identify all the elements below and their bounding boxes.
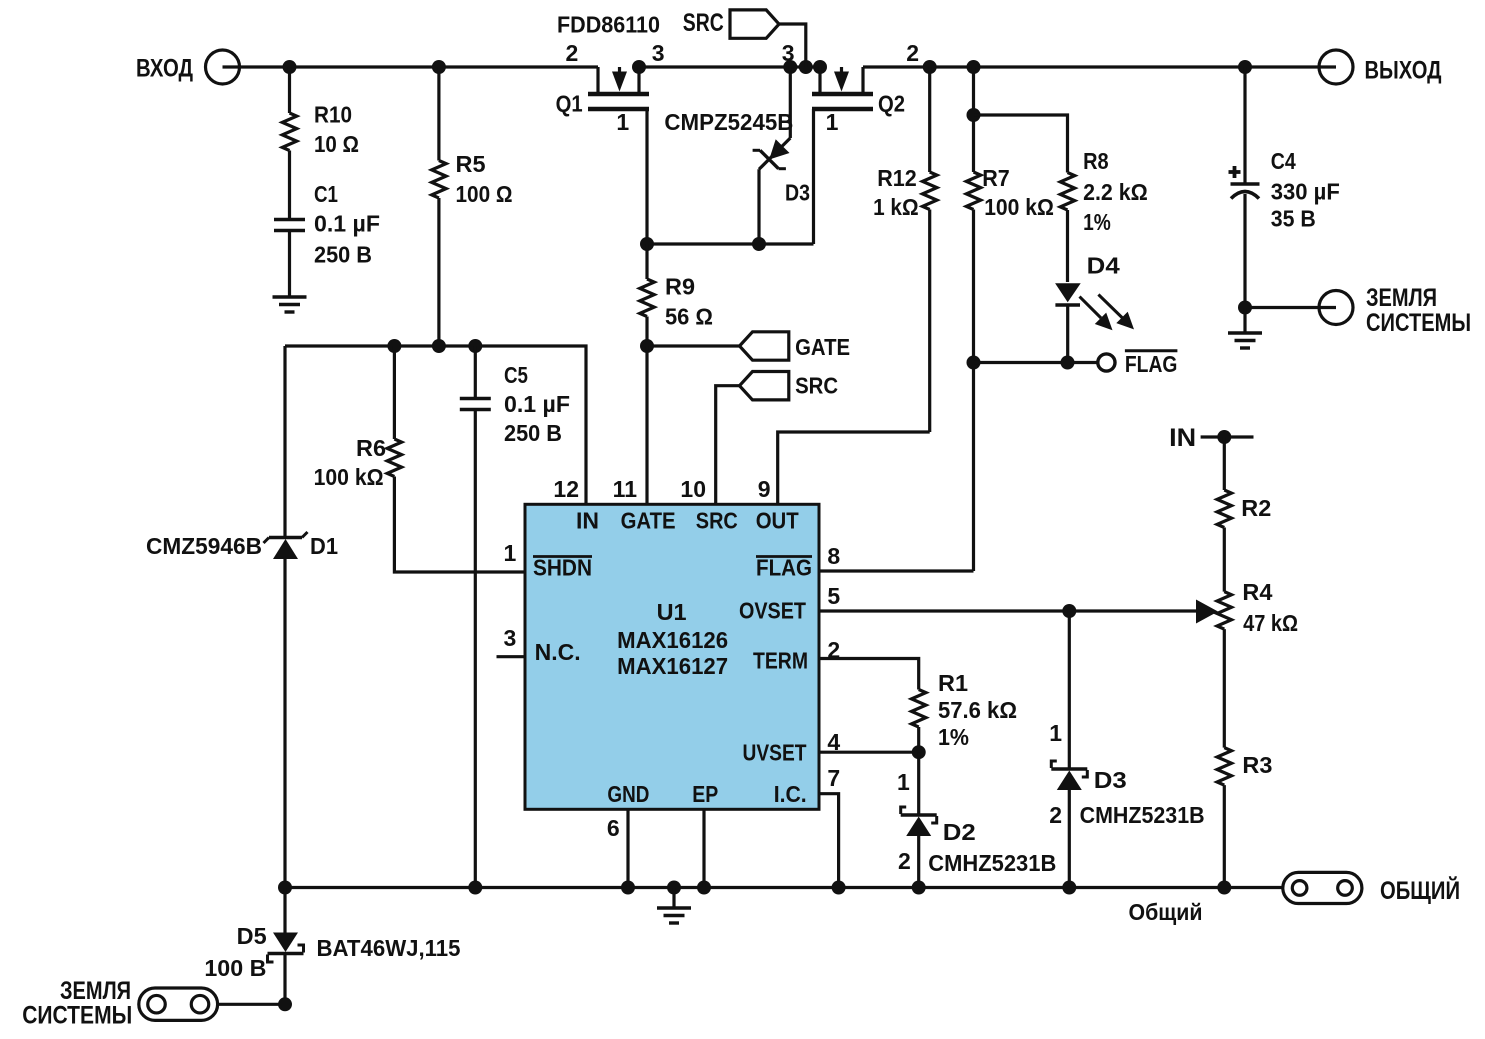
wire U1 pin 9 OUT to R12	[778, 432, 930, 504]
svg-text:57.6 kΩ: 57.6 kΩ	[938, 697, 1017, 723]
terminal ВХОД (input)	[136, 50, 240, 84]
junction chip ground symbol	[667, 881, 681, 895]
junction R3 bottom	[1217, 881, 1231, 895]
svg-text:ОБЩИЙ: ОБЩИЙ	[1380, 875, 1460, 905]
junction GATE node	[640, 339, 654, 353]
terminal ЗЕМЛЯ СИСТЕМЫ (system ground, right)	[1319, 284, 1471, 337]
junction FLAG output node	[967, 356, 981, 370]
junction Q1 source node	[632, 60, 646, 74]
svg-text:10: 10	[680, 476, 706, 502]
flag SRC (top, to Q1/Q2 source node)	[683, 9, 779, 38]
resistor R8 2.2 kΩ 1%	[974, 115, 1148, 282]
svg-text:SRC: SRC	[696, 508, 738, 534]
transistor Q2 FDD86110 (N-MOSFET)	[812, 67, 905, 117]
wire GATE flag to R9/pin11 node	[647, 344, 740, 347]
junction R10 tap	[283, 60, 297, 74]
svg-text:C4: C4	[1271, 148, 1296, 174]
svg-text:GATE: GATE	[621, 508, 676, 534]
capacitor C1 0.1 µF 250 В	[274, 151, 380, 268]
svg-text:Общий: Общий	[1129, 899, 1203, 925]
resistor R10 10 Ω	[282, 67, 359, 157]
svg-text:R10: R10	[314, 102, 352, 128]
svg-text:2: 2	[906, 40, 919, 66]
svg-text:0.1 µF: 0.1 µF	[314, 211, 380, 237]
svg-text:UVSET: UVSET	[743, 740, 807, 766]
svg-text:GATE: GATE	[795, 334, 850, 360]
svg-text:SRC: SRC	[795, 373, 838, 399]
svg-text:R9: R9	[665, 274, 695, 300]
wire U1 pin 11 GATE lead	[645, 346, 648, 504]
svg-text:10 Ω: 10 Ω	[314, 131, 359, 157]
wire U1 pin 3 N.C. stub	[497, 655, 526, 658]
junction R5 tap	[432, 60, 446, 74]
zener diode D3 CMHZ5231B	[1051, 611, 1204, 888]
svg-text:FLAG: FLAG	[756, 555, 812, 581]
svg-text:CMPZ5245B: CMPZ5245B	[664, 109, 793, 135]
svg-text:330 µF: 330 µF	[1271, 179, 1340, 205]
svg-text:1%: 1%	[1083, 209, 1111, 235]
op-amp U1 MAX16126/MAX16127 (controller IC)	[525, 504, 819, 809]
LED D4	[1055, 253, 1134, 363]
svg-text:TERM: TERM	[753, 648, 808, 674]
wire SRC flag to source node	[779, 24, 806, 67]
junction EP pin	[697, 881, 711, 895]
junction I.C. pin	[832, 881, 846, 895]
svg-text:R5: R5	[456, 151, 486, 177]
svg-text:2: 2	[898, 848, 911, 874]
svg-text:11: 11	[613, 476, 638, 502]
potentiometer wiper arrow (R4)	[1196, 600, 1218, 624]
svg-text:MAX16126: MAX16126	[617, 627, 728, 653]
resistor R5 100 Ω	[432, 67, 513, 346]
svg-text:C1: C1	[314, 181, 338, 207]
svg-text:2.2 kΩ: 2.2 kΩ	[1083, 179, 1148, 205]
svg-text:OUT: OUT	[756, 508, 799, 534]
svg-text:IN: IN	[1169, 424, 1196, 452]
wire IN rail (D1 branch to U1 pin 12)	[285, 346, 586, 504]
svg-text:6: 6	[607, 815, 620, 841]
svg-text:N.C.: N.C.	[535, 639, 581, 665]
wire U1 pin 4 UVSET to R1/D2 node	[819, 751, 919, 754]
wire input rail (ВХОД to Q1 drain)	[223, 65, 599, 68]
terminal ВЫХОД (output)	[1319, 50, 1442, 85]
flag SRC (middle)	[740, 372, 839, 400]
junction R12 tap	[923, 60, 937, 74]
svg-text:SRC: SRC	[683, 9, 724, 37]
junction R9 top	[640, 237, 654, 251]
junction Q2 source node	[813, 60, 827, 74]
wire U1 pin 8 FLAG to R7	[819, 569, 974, 572]
svg-text:CMHZ5231B: CMHZ5231B	[928, 850, 1056, 876]
junction R6 tap	[387, 339, 401, 353]
svg-text:CMZ5946B: CMZ5946B	[146, 533, 262, 559]
svg-text:R1: R1	[938, 670, 968, 696]
schottky diode D5 BAT46WJ,115 100 В	[204, 888, 460, 1005]
capacitor C4 330 µF 35 В (polarized)	[1229, 67, 1340, 308]
junction D3 (CMHZ5231B) tap	[1062, 604, 1076, 618]
svg-text:SHDN: SHDN	[533, 555, 592, 581]
svg-text:D3: D3	[785, 180, 810, 206]
svg-text:47 kΩ: 47 kΩ	[1243, 610, 1298, 636]
svg-text:100 kΩ: 100 kΩ	[984, 194, 1054, 220]
wire U1 pin 7 I.C. to ground rail	[819, 794, 839, 888]
junction R8 branch	[967, 108, 981, 122]
resistor R3	[1217, 748, 1272, 888]
svg-text:MAX16127: MAX16127	[617, 653, 728, 679]
svg-text:Q1: Q1	[556, 91, 583, 117]
svg-text:R4: R4	[1242, 579, 1272, 605]
svg-text:U1: U1	[657, 599, 687, 625]
wire U1 pin 2 TERM to R1	[819, 659, 919, 690]
svg-text:R6: R6	[356, 435, 386, 461]
svg-text:I.C.: I.C.	[774, 781, 807, 807]
wire ground rail (Общий)	[285, 888, 1283, 926]
wire D5 to system ground terminal	[218, 1003, 285, 1006]
svg-text:D4: D4	[1087, 253, 1120, 279]
zener diode D3 CMPZ5245B (gate-source clamp)	[664, 67, 810, 244]
flag GATE	[740, 332, 851, 360]
wire U1 EP lead	[702, 809, 705, 888]
svg-text:100 Ω: 100 Ω	[456, 181, 513, 207]
junction D3 anode	[752, 237, 766, 251]
zener diode D2 CMHZ5231B	[901, 752, 1057, 887]
svg-text:250 В: 250 В	[314, 241, 372, 267]
ground (U1 EP/GND)	[657, 888, 691, 924]
svg-text:2: 2	[1049, 802, 1062, 828]
svg-text:2: 2	[566, 40, 579, 66]
ground (C4)	[1228, 308, 1262, 349]
svg-text:56 Ω: 56 Ω	[665, 304, 713, 330]
svg-text:R12: R12	[877, 165, 917, 191]
svg-text:1: 1	[1049, 720, 1062, 746]
svg-text:12: 12	[553, 476, 579, 502]
junction R7 tap	[967, 60, 981, 74]
junction D2 anode rail	[912, 881, 926, 895]
svg-text:D5: D5	[237, 923, 267, 949]
svg-text:7: 7	[827, 765, 840, 791]
junction C4 ground node	[1238, 301, 1252, 315]
svg-text:ВЫХОД: ВЫХОД	[1365, 57, 1442, 85]
svg-text:1 kΩ: 1 kΩ	[873, 194, 919, 220]
svg-text:ЗЕМЛЯ: ЗЕМЛЯ	[1366, 284, 1437, 312]
node IN (divider input)	[1169, 424, 1253, 452]
svg-text:CMHZ5231B: CMHZ5231B	[1080, 802, 1205, 828]
junction D3 cathode tap	[783, 60, 797, 74]
junction D3 anode rail	[1062, 881, 1076, 895]
svg-text:EP: EP	[692, 781, 718, 807]
wire FLAG node to FLAG terminal	[974, 361, 1098, 364]
terminal FLAG (open circle)	[1098, 351, 1178, 377]
resistor R6 100 kΩ	[314, 346, 525, 572]
wire U1 pin 6 GND lead	[626, 809, 629, 888]
resistor R1 57.6 kΩ 1%	[912, 670, 1018, 752]
svg-text:1: 1	[616, 109, 629, 135]
svg-text:R7: R7	[982, 165, 1010, 191]
svg-text:35 В: 35 В	[1271, 206, 1316, 232]
wire C4 to system ground terminal	[1245, 306, 1336, 309]
svg-text:250 В: 250 В	[504, 420, 562, 446]
wire Q2 gate lead	[812, 109, 815, 244]
resistor R2	[1217, 437, 1271, 592]
svg-text:1: 1	[826, 109, 839, 135]
wire SRC flag to U1 pin 10	[716, 386, 740, 504]
svg-text:СИСТЕМЫ: СИСТЕМЫ	[1366, 309, 1471, 337]
svg-text:GND: GND	[607, 781, 649, 807]
potentiometer R4 47 kΩ	[1217, 579, 1298, 748]
svg-text:R8: R8	[1083, 148, 1109, 174]
resistor R12 1 kΩ	[873, 67, 937, 432]
svg-text:8: 8	[827, 543, 840, 569]
junction D5 anode	[278, 997, 292, 1011]
terminal ОБЩИЙ (common)	[1283, 872, 1460, 905]
junction C5 bottom	[468, 881, 482, 895]
svg-text:C5: C5	[504, 362, 528, 388]
svg-text:ВХОД: ВХОД	[136, 55, 193, 83]
svg-text:100 kΩ: 100 kΩ	[314, 464, 384, 490]
svg-text:1%: 1%	[938, 724, 969, 750]
junction R5 bottom	[432, 339, 446, 353]
svg-text:Q2: Q2	[878, 91, 905, 117]
svg-text:D3: D3	[1094, 767, 1127, 793]
junction R1-D2 node	[912, 745, 926, 759]
svg-text:3: 3	[782, 40, 795, 66]
wire Q1 source to Q2 source	[639, 65, 820, 68]
junction left branch	[278, 881, 292, 895]
svg-text:1: 1	[897, 769, 910, 795]
svg-text:IN: IN	[576, 508, 599, 534]
svg-text:1: 1	[504, 540, 517, 566]
svg-text:9: 9	[758, 476, 771, 502]
svg-text:100 В: 100 В	[204, 955, 266, 981]
terminal ЗЕМЛЯ СИСТЕМЫ (system ground, bottom left)	[22, 977, 217, 1030]
transistor Q1 FDD86110 (N-MOSFET)	[556, 12, 660, 117]
ground (C1)	[273, 232, 307, 312]
svg-text:3: 3	[652, 40, 665, 66]
resistor R9 56 Ω	[640, 244, 713, 346]
svg-text:5: 5	[827, 583, 840, 609]
wire Q1 gate lead	[645, 109, 648, 244]
capacitor C5 0.1 µF 250 В	[460, 346, 570, 888]
svg-text:R2: R2	[1241, 495, 1271, 521]
svg-text:FLAG: FLAG	[1125, 351, 1178, 377]
zener diode D1 CMZ5946B	[146, 346, 338, 888]
svg-text:0.1 µF: 0.1 µF	[504, 391, 570, 417]
wire U1 pin 5 OVSET to R4 wiper	[819, 609, 1196, 612]
svg-text:R3: R3	[1242, 752, 1272, 778]
svg-text:BAT46WJ,115: BAT46WJ,115	[317, 935, 461, 961]
junction D4 cathode	[1061, 356, 1075, 370]
svg-text:OVSET: OVSET	[739, 598, 806, 624]
junction C5 tap	[468, 339, 482, 353]
svg-text:D1: D1	[310, 533, 338, 559]
wire gate node (Q1 gate - Q2 gate)	[647, 242, 814, 245]
svg-text:СИСТЕМЫ: СИСТЕМЫ	[22, 1002, 132, 1030]
junction C4 tap	[1238, 60, 1252, 74]
junction SRC flag tap	[799, 60, 813, 74]
svg-text:D2: D2	[943, 819, 976, 845]
svg-text:FDD86110: FDD86110	[557, 12, 660, 38]
junction GND pin	[621, 881, 635, 895]
resistor R7 100 kΩ	[966, 67, 1054, 571]
svg-text:3: 3	[504, 625, 517, 651]
wire Q2 drain to ВЫХОД	[863, 65, 1336, 68]
junction IN node	[1217, 430, 1231, 444]
